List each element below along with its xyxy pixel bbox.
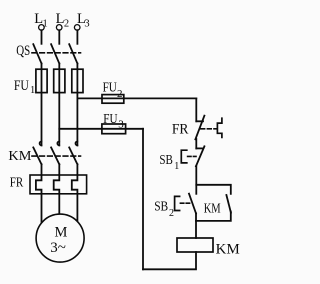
wire L1 to QS [41,30,43,44]
fuse FU1 element pole1 [36,69,47,92]
label L2 [56,11,70,30]
switch QS linkage dashed line [32,52,81,54]
terminal circle L1 [39,25,45,31]
KM aux contact blade [226,195,231,213]
button SB2 label [154,199,174,220]
fuse FU1 label [14,78,35,96]
thermal relay FR heater pole2 with wires [54,164,60,214]
button SB1 blade [196,146,205,166]
svg-text:3~: 3~ [50,240,66,256]
fuse FU1 element pole3 [72,69,83,92]
svg-text:SB: SB [159,152,173,167]
fuse FU3 [102,124,126,134]
fuse FU2 label [103,81,123,100]
switch QS blade pole3 [69,44,77,63]
button SB1 label [159,152,179,172]
wire branch top to KM aux contact [196,185,231,194]
thermal relay FR label [10,175,24,190]
wire FR contact to SB1 [195,139,197,148]
svg-text:FR: FR [10,175,24,190]
switch QS blade pole2 [51,44,59,63]
motor label M 3~ [50,224,67,255]
wire SB1 to SB2 [195,166,197,194]
wire pole1 QS to KM [41,64,43,146]
button SB1 cap [181,150,187,163]
svg-text:3: 3 [84,19,89,30]
svg-text:1: 1 [174,161,179,172]
button SB1 fixed tick [196,147,203,149]
button SB1 dashed actuator link [188,155,196,157]
motor M circle [36,214,84,262]
switch QS blade pole1 [33,44,41,63]
fuse FU3 label [103,112,124,131]
svg-text:QS: QS [16,43,30,59]
switch QS label [16,43,30,59]
fuse FU2 [102,95,124,104]
svg-text:FR: FR [172,121,189,137]
svg-text:KM: KM [216,242,240,258]
wire branch pole3 to FU2 [77,97,196,99]
svg-text:KM: KM [204,201,221,216]
button SB2 dashed actuator link [180,202,190,204]
thermal relay FR box [30,175,87,194]
contactor KM main contact arc pole2 [57,141,59,145]
FR NC contact fixed tick [196,120,203,122]
contactor coil KM rectangle [177,238,213,252]
FR contact dashed actuator link [201,128,217,130]
svg-text:M: M [55,224,68,240]
wire pole2 QS to KM [58,64,60,146]
terminal circle L3 [74,25,80,31]
thermal relay FR heater pole1 with wires [36,164,42,223]
contactor KM main contact arc pole1 [40,141,42,145]
contactor KM main blade pole2 [51,147,59,164]
svg-text:1: 1 [43,19,48,30]
svg-text:1: 1 [30,85,35,96]
contactor coil KM label [216,242,240,258]
svg-text:FU: FU [14,78,29,94]
wire FU2 to FR contact [195,98,197,121]
button SB2 cap [175,196,180,210]
svg-text:2: 2 [64,19,69,30]
contactor KM main blade pole1 [33,147,41,164]
button SB2 blade [189,194,196,214]
fuse FU1 element pole2 [54,69,65,92]
wire KM aux contact bottom branch [196,212,231,221]
contactor KM main blade pole3 [69,147,77,164]
FR NC contact blade [195,116,204,140]
svg-text:FU: FU [103,81,117,96]
label L1 [34,11,48,30]
thermal relay FR heater pole3 with wires [72,164,78,223]
wire FU3 return riser [142,129,144,269]
KM aux contact label [204,201,221,216]
wire SB2 to coil [195,213,197,238]
wire L2 to QS [58,30,60,44]
svg-text:KM: KM [8,149,32,164]
wire branch pole2 to FU3 [59,128,143,130]
contactor KM main contact arc pole3 [75,141,77,145]
contactor KM linkage dashed line [32,155,81,157]
contactor KM label [8,149,32,164]
label L3 [77,11,90,30]
wire pole3 QS to KM [76,64,78,146]
terminal circle L2 [56,25,62,31]
FR contact thermal actuator hook [217,118,222,137]
svg-text:2: 2 [169,208,174,219]
wire L3 to QS [76,30,78,44]
svg-text:SB: SB [154,199,168,214]
wire coil bottom return [143,252,196,269]
FR contact label [172,121,189,137]
